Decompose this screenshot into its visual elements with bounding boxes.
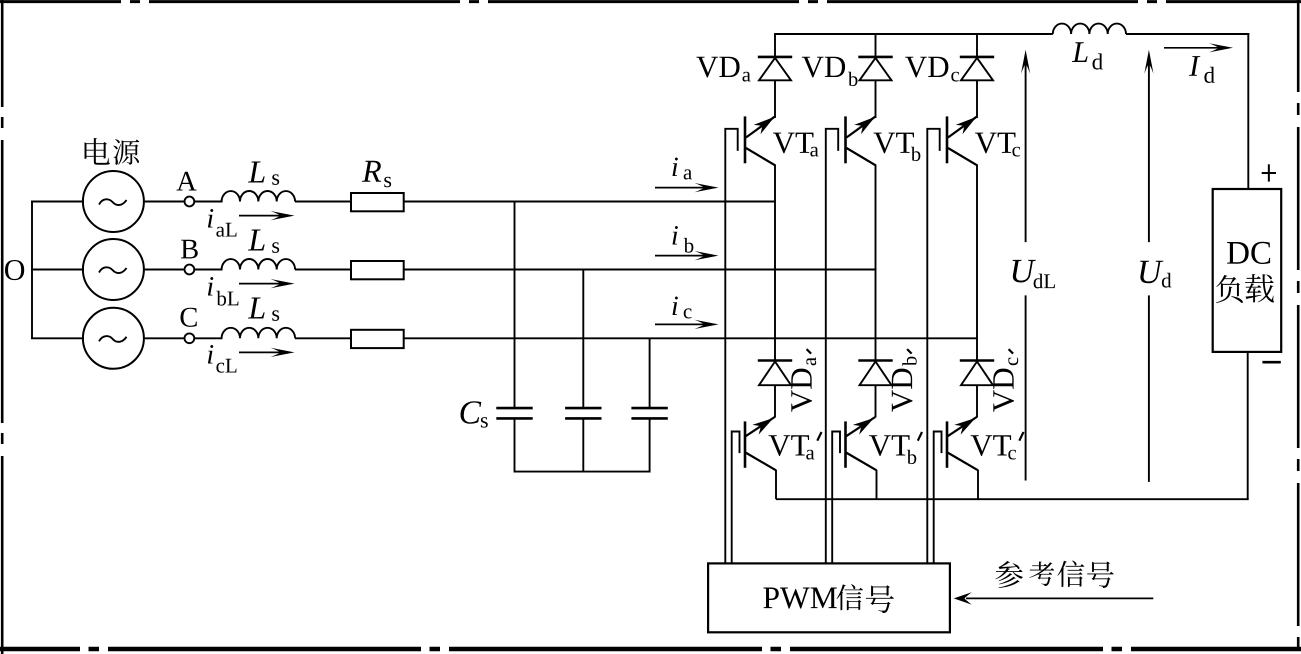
transistor VTb collector [847, 112, 879, 137]
current i_c label [672, 297, 677, 316]
wire bus to source A [31, 201, 84, 203]
wire emitter VTa to phase node [774, 165, 776, 361]
wire phase A to bridge leg a [404, 201, 777, 203]
transistor VTa base bar [744, 116, 747, 163]
AC source VA (circle) [83, 171, 144, 232]
wire rail to diode VDb [875, 33, 877, 58]
current Id arrow [1164, 43, 1233, 52]
wire Ld to DC load corner [1126, 33, 1249, 35]
transistor VTb gate lead [826, 129, 838, 564]
wire diode VDap to transistor VTap [774, 385, 776, 417]
label Ls phase a [248, 162, 265, 183]
transistor VTap collector [746, 413, 777, 436]
reference signal arrow [954, 592, 1154, 604]
transistor VTbp emitter [846, 453, 877, 471]
wire diode VDcp to transistor VTcp [976, 385, 978, 417]
transistor VTa collector [746, 112, 778, 137]
label Ls phase c [248, 298, 265, 319]
label VTc prime tick [1019, 432, 1023, 441]
transistor VTa emitter [746, 148, 776, 166]
wire capacitor common rail [515, 471, 650, 473]
capacitor Cs phase a (plates) [496, 408, 532, 418]
transistor VTcp base bar [946, 421, 949, 467]
label Rs [362, 161, 381, 182]
transistor VTcp gate lead [934, 432, 942, 564]
current i_b label [672, 226, 677, 245]
label 电源 (power source) [85, 138, 140, 165]
wire diode VDbp to transistor VTbp [875, 385, 877, 417]
wire inductor to resistor phase A [295, 201, 352, 203]
transistor VTb emitter [847, 148, 877, 166]
transistor VTcp emitter [948, 453, 979, 471]
wire DC positive rail [775, 33, 1053, 35]
wire emitter VTc to phase node [976, 165, 978, 361]
diode VDb prime [858, 361, 892, 386]
wire emitter VTap to negative rail [775, 470, 777, 499]
inductor Ls phase A [222, 191, 295, 201]
transistor VTc collector [948, 112, 980, 137]
wire capacitor b to common rail [582, 418, 584, 472]
label i_bL [208, 277, 213, 296]
transistor VTap emitter [746, 453, 777, 471]
diode VDa [758, 57, 792, 118]
wire emitter VTb to phase node [875, 165, 877, 361]
node B terminal circle [185, 265, 195, 275]
inductor Ls phase C [222, 328, 295, 339]
wire node A to inductor [194, 201, 222, 203]
label UdL [1013, 260, 1036, 283]
label VDa prime (rotated) [791, 369, 812, 412]
wire rail corner to DC load [1247, 33, 1249, 190]
label Id [1189, 56, 1200, 76]
transistor VTb base bar [844, 116, 847, 163]
AC source VA sine symbol [99, 199, 127, 205]
border right (dashed frame) [1297, 0, 1300, 654]
DC load box [1213, 189, 1282, 352]
resistor Rs phase B (box) [351, 261, 404, 279]
label i_aL [208, 209, 213, 228]
wire node C to inductor [194, 337, 222, 339]
transistor VTbp base bar [844, 421, 847, 467]
wire phase C to bridge leg c [404, 337, 979, 339]
node B label [181, 240, 198, 259]
label PWM信号 [763, 588, 778, 609]
diode VDb [858, 57, 892, 118]
diode VDa prime [758, 361, 792, 386]
label VDc [905, 57, 927, 78]
transistor VTap base bar [744, 421, 747, 467]
label VTc prime [971, 435, 993, 456]
label VDc prime (rotated) [993, 369, 1014, 412]
current iL arrow phase C [239, 348, 295, 357]
AC source VB sine symbol [99, 267, 127, 273]
wire rail to diode VDc [976, 33, 978, 58]
border bottom (dashed frame) [0, 647, 1301, 652]
label VTb [873, 133, 895, 154]
label VTc [975, 133, 997, 154]
inductor Ls phase B [222, 259, 295, 270]
diode VDc [960, 57, 994, 118]
minus sign [1262, 361, 1280, 364]
wire phase a down to capacitor [514, 202, 516, 408]
label VTa prime [769, 435, 791, 456]
wire source C to node C [144, 337, 185, 339]
current i_a arrow [655, 183, 719, 192]
wire source A to node A [144, 201, 185, 203]
AC source VC sine symbol [99, 336, 127, 342]
wire DC negative rail [776, 498, 1249, 500]
transistor VTbp gate lead [832, 432, 840, 564]
wire bus to source B [31, 269, 84, 271]
label VDc prime tick [1009, 349, 1014, 354]
label Ld [1072, 42, 1088, 62]
label Ud [1140, 261, 1163, 284]
plus sign [1262, 164, 1276, 181]
wire DC load to negative rail [1247, 352, 1249, 499]
AC source VB (circle) [83, 239, 144, 300]
label i_cL [208, 345, 213, 364]
wire phase b down to capacitor [582, 270, 584, 408]
wire node B to inductor [194, 269, 222, 271]
transistor VTap gate lead [732, 432, 740, 564]
wire phase c down to capacitor [649, 338, 651, 407]
label Cs [461, 401, 482, 423]
voltage UdL arrow [1021, 50, 1030, 481]
wire emitter VTcp to negative rail [977, 470, 979, 499]
label Ls phase b [248, 230, 265, 251]
wire emitter VTbp to negative rail [876, 470, 878, 499]
current i_a label [672, 158, 677, 177]
diode VDc prime [960, 361, 994, 386]
resistor Rs phase A (box) [351, 193, 404, 211]
transistor VTcp collector [948, 413, 979, 436]
label 负载 (load) [1216, 274, 1274, 303]
label VTb prime tick [918, 432, 922, 441]
node A label [176, 172, 196, 191]
transistor VTc base bar [946, 116, 949, 163]
transistor VTbp collector [846, 413, 877, 436]
node O label [5, 260, 24, 280]
label VDb prime (rotated) [892, 369, 913, 412]
label VTa [773, 133, 795, 154]
node C label [180, 308, 196, 327]
node C terminal circle [185, 333, 195, 343]
wire neutral bus [31, 202, 33, 339]
border top (dashed frame) [0, 0, 1301, 3]
label VDa [696, 57, 718, 78]
label 参考信号 (reference signal) [995, 560, 1113, 588]
border left (dashed frame) [1, 0, 4, 654]
label DC [1227, 242, 1249, 264]
wire inductor to resistor phase B [295, 269, 352, 271]
label VDa prime tick [807, 349, 812, 354]
label VTb prime [869, 435, 891, 456]
wire capacitor a to common rail [514, 418, 516, 472]
transistor VTc emitter [948, 148, 978, 166]
wire bus to source C [31, 337, 84, 339]
label VTa prime tick [817, 432, 821, 441]
AC source VC (circle) [83, 308, 144, 369]
label VDb prime tick [907, 349, 912, 354]
capacitor Cs phase c (plates) [631, 408, 667, 418]
current i_b arrow [655, 251, 719, 260]
label VDb [802, 57, 824, 78]
node A terminal circle [185, 197, 195, 207]
inductor Ld [1053, 24, 1126, 34]
transistor VTc gate lead [927, 129, 939, 564]
transistor VTa gate lead [725, 129, 737, 564]
voltage Ud arrow [1144, 50, 1153, 482]
PWM signal box [708, 563, 950, 632]
wire capacitor c to common rail [649, 418, 651, 472]
current iL arrow phase A [239, 211, 295, 220]
current iL arrow phase B [239, 279, 295, 288]
wire inductor to resistor phase C [295, 337, 352, 339]
resistor Rs phase C (box) [351, 330, 404, 348]
current i_c arrow [655, 320, 719, 329]
wire phase B to bridge leg b [404, 269, 877, 271]
wire source B to node B [144, 269, 185, 271]
wire rail to diode VDa [774, 33, 776, 58]
capacitor Cs phase b (plates) [565, 408, 601, 418]
